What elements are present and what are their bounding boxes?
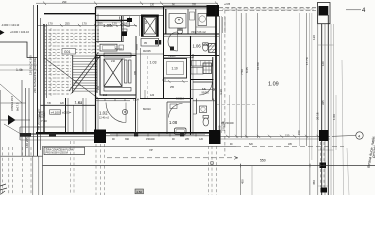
terrace hatch vertical dashes — [50, 29, 98, 95]
small text labels scattered — [103, 50, 155, 111]
shaft X diagonals — [104, 59, 122, 87]
line through triangle — [0, 119, 30, 121]
dashed verticals below wing — [70, 141, 72, 195]
svg-text:285: 285 — [185, 138, 190, 141]
small window x-box — [40, 112, 45, 117]
svg-text:170: 170 — [82, 21, 87, 25]
door arc corridor — [168, 32, 178, 51]
stairwell bottom landing — [104, 88, 131, 92]
wall y98 across lower band — [96, 98, 137, 100]
right strip column C5 — [319, 130, 328, 141]
stair cut diagonals — [69, 53, 98, 91]
site line y146 — [43, 145, 236, 147]
svg-text:G01: G01 — [64, 50, 71, 54]
stairwell outer walls — [100, 56, 136, 96]
svg-text:1.09: 1.09 — [268, 82, 279, 88]
svg-text:1.03: 1.03 — [150, 61, 157, 65]
elevation triangle left — [8, 115, 16, 125]
toilet room C — [177, 29, 182, 33]
svg-text:1.09: 1.09 — [332, 114, 336, 120]
right bathroom: washer — [200, 106, 207, 113]
right wall of lower block — [213, 99, 215, 134]
mid vertical wall x190 — [190, 36, 192, 135]
kitchen room 1.07 counter row — [192, 61, 213, 67]
svg-text:8x17.5: 8x17.5 — [16, 102, 20, 111]
scan edge left — [0, 90, 2, 195]
(chain line far left) — [28, 88, 30, 156]
survey circle below C4 — [210, 161, 214, 165]
kitchen lower rect row — [191, 68, 203, 75]
rotated text near left edge — [10, 95, 20, 111]
site line left y156 — [0, 155, 43, 157]
terrace hatch horizontal dashes — [44, 30, 99, 94]
svg-text:PRO NOSIVI ZIDOVI: PRO NOSIVI ZIDOVI — [46, 152, 69, 155]
top-right divider wall C — [195, 9, 197, 34]
svg-text:+0.000 = 104.16: +0.000 = 104.16 — [10, 30, 29, 34]
svg-text:150: 150 — [285, 134, 290, 138]
street line ticks — [240, 164, 242, 168]
wall chunk left wing 1 — [20, 133, 31, 137]
main top wall left segment — [44, 13, 96, 15]
svg-text:120: 120 — [199, 138, 204, 141]
bottom-left dashed verticals — [3, 147, 32, 195]
svg-text:160 205: 160 205 — [25, 137, 29, 148]
nightstand rect — [119, 45, 124, 50]
sink 1.08 — [170, 104, 177, 109]
main left wall of block — [95, 7, 97, 135]
svg-text:255: 255 — [65, 21, 70, 25]
terrace edge line 2 — [235, 8, 237, 138]
left dimension chain verticals — [22, 5, 47, 156]
right strip column C7 — [321, 188, 328, 193]
bottom wall of building (double line with openings) — [20, 133, 96, 135]
stairwell shaft box with X — [104, 59, 122, 87]
top dimension ticks — [43, 2, 218, 6]
window mullion ticks bottom wall — [117, 133, 196, 137]
svg-text:1.05: 1.05 — [103, 23, 112, 28]
wall chunk left wing 2 — [49, 133, 56, 137]
handwritten note right edge — [366, 118, 375, 168]
site vertical x42.5 — [42, 146, 44, 195]
shelf room B — [190, 12, 195, 20]
dashed dim line y104 — [217, 103, 256, 105]
svg-text:290: 290 — [62, 0, 67, 4]
axis 4 label top right — [346, 9, 361, 11]
svg-text:+2.85: +2.85 — [224, 3, 231, 6]
svg-text:VP: VP — [149, 148, 153, 152]
svg-text:29.15: 29.15 — [316, 112, 320, 120]
svg-text:1.08: 1.08 — [169, 120, 178, 125]
svg-text:1.02: 1.02 — [99, 111, 108, 116]
rotated texts right strip — [312, 35, 336, 185]
dim texts bottom chain — [230, 144, 293, 146]
right wall of block — [215, 5, 217, 133]
dashed verticals below column C4 — [209, 146, 217, 195]
left wing horizontal wall y127 — [20, 126, 66, 128]
svg-text:255: 255 — [170, 86, 175, 89]
svg-text:80/210: 80/210 — [115, 48, 123, 51]
svg-text:120: 120 — [192, 53, 195, 58]
svg-text:240: 240 — [97, 85, 100, 90]
strip tick y186 — [318, 185, 329, 187]
wall x163 top rooms — [163, 7, 165, 98]
vestibule door arc — [199, 82, 212, 95]
bathtub 1.08 — [175, 128, 187, 135]
svg-text:90/210: 90/210 — [202, 92, 210, 95]
svg-text:1.04: 1.04 — [133, 98, 139, 102]
vertical below street x240 — [240, 164, 242, 195]
top border dimension line — [36, 2, 218, 4]
left wing horizontal wall y105 — [41, 104, 96, 106]
dim numbers above y105 wall — [47, 103, 83, 105]
void room rect (light well) — [164, 59, 187, 79]
stairwell duct bars — [125, 60, 128, 83]
kitchen right wall — [212, 57, 214, 100]
terrace label box G01 — [62, 49, 76, 55]
top-right divider wall B — [187, 9, 189, 34]
door arc room 1.05 — [120, 17, 130, 27]
bottom dimension chain to right of plan — [220, 135, 330, 137]
svg-text:210: 210 — [103, 94, 108, 97]
left wing step outline — [0, 42, 38, 58]
svg-text:120: 120 — [321, 61, 325, 66]
small dim texts scattered 2 — [97, 21, 195, 90]
site text block box — [44, 147, 85, 154]
svg-text:80/210: 80/210 — [143, 108, 151, 111]
svg-text:ZID SUSJEDNE ZGRADE: ZID SUSJEDNE ZGRADE — [33, 58, 37, 93]
corridor wall left of elevator — [138, 16, 140, 36]
dashed verticals below column C3 — [96, 144, 105, 195]
elevator pit line — [141, 36, 159, 38]
kitchen hatched appliance — [203, 63, 212, 74]
elevator shaft walls — [141, 15, 144, 37]
sink counter room A — [169, 14, 186, 29]
rotated texts inside right wall strip — [321, 61, 325, 105]
zigzag fence marks on utility line — [222, 9, 314, 11]
room 1.05 top wall — [96, 19, 132, 21]
bottom-mid black column C4 — [209, 130, 221, 144]
street long line y165.5 — [43, 165, 375, 167]
svg-text:450: 450 — [312, 180, 316, 185]
right bathroom: toilet — [203, 118, 209, 126]
svg-text:150: 150 — [297, 130, 301, 135]
svg-text:4.50: 4.50 — [136, 190, 142, 194]
vline below street 2 — [251, 166, 253, 195]
svg-text:7.90: 7.90 — [41, 119, 47, 123]
bottom-left solid verticals — [32, 156, 34, 195]
horizontal wall y33 — [164, 33, 220, 35]
svg-text:120: 120 — [150, 4, 155, 7]
left dashed reference line — [50, 28, 52, 98]
left wing wall verticals — [65, 98, 67, 134]
kitchen bottom wall — [191, 79, 214, 81]
loggia band line — [96, 15, 164, 17]
assorted small dimension ticks center plan — [137, 44, 166, 98]
left wing corner vline — [19, 127, 21, 140]
corridor wall right of stairwell — [135, 36, 137, 98]
toilet fixture 1.06 — [203, 44, 208, 51]
svg-text:255: 255 — [192, 4, 197, 7]
left diagonal cut line — [0, 84, 22, 103]
elevator X — [144, 18, 155, 34]
duct dark rects below elevator — [155, 40, 158, 45]
corridor wall line y52.5 — [96, 53, 164, 55]
svg-text:12.46 m2: 12.46 m2 — [99, 117, 110, 120]
sink oval — [175, 17, 183, 23]
room 1.05 right wall — [121, 16, 123, 42]
wall chunk 1 bottom wall — [134, 132, 138, 136]
svg-text:+4.100: +4.100 — [51, 110, 61, 114]
top main dimension chain — [38, 24, 138, 26]
bed furniture below 1.05 — [100, 44, 117, 51]
dashed reference line corridor — [147, 56, 149, 98]
svg-text:90/210: 90/210 — [176, 97, 184, 101]
top-right room divider wall A — [165, 9, 167, 34]
dashed verticals below C5 — [320, 142, 322, 187]
stairwell upper landing bar — [104, 53, 131, 57]
grid bubble with leader — [332, 135, 356, 138]
long verticals center (terrace 1.09 edges) — [221, 16, 223, 133]
elevator cab — [144, 18, 155, 34]
right strip column C6 — [320, 163, 327, 169]
top tiny dimension texts — [150, 4, 197, 7]
upper wall inner line — [163, 4, 207, 6]
window sill lines in bottom wall — [110, 133, 205, 135]
svg-text:8.65: 8.65 — [245, 67, 249, 73]
svg-text:1.06: 1.06 — [193, 44, 202, 49]
top black column C1 — [207, 5, 220, 17]
room 1.08 walls — [166, 102, 168, 134]
elevation box +4.100 — [50, 110, 61, 114]
svg-text:75/205: 75/205 — [168, 55, 176, 58]
svg-text:450: 450 — [241, 179, 245, 184]
top right dashed utility line (double) — [219, 7, 318, 9]
big door arc room 1.02 — [106, 103, 126, 123]
strip crossing tick — [318, 44, 334, 46]
bottom-left black column C3 — [94, 130, 106, 144]
lower small rect room — [164, 81, 188, 83]
svg-text:1.10: 1.10 — [172, 67, 178, 71]
main top wall right segment — [96, 6, 207, 8]
svg-text:120: 120 — [312, 35, 316, 40]
left wing interior lines — [0, 64, 37, 66]
svg-text:345: 345 — [321, 100, 325, 105]
svg-text:-0.060 = 104.10: -0.060 = 104.10 — [1, 23, 20, 27]
svg-text:7.50: 7.50 — [240, 69, 244, 75]
svg-text:4.20: 4.20 — [219, 89, 223, 95]
svg-text:VISINA 29.5: VISINA 29.5 — [10, 95, 14, 111]
svg-text:1.4b: 1.4b — [16, 68, 23, 72]
door circle symbol — [122, 109, 127, 114]
right bathroom walls — [196, 99, 198, 115]
rotated dimension text left wall — [25, 55, 41, 148]
svg-text:17.70: 17.70 — [305, 57, 309, 65]
svg-text:10.80: 10.80 — [256, 62, 260, 70]
right wall strip verticals — [317, 15, 319, 195]
svg-text:170: 170 — [48, 21, 53, 25]
stair flight side walls — [72, 55, 74, 93]
svg-text:210: 210 — [111, 60, 116, 63]
svg-text:150/200: 150/200 — [146, 138, 155, 141]
room below elevator — [141, 39, 159, 47]
window mullion ticks top of 1.02 — [105, 99, 125, 102]
terrace diagonal cut — [45, 58, 100, 99]
top right black column C2 with outline — [318, 3, 331, 24]
svg-text:550: 550 — [260, 159, 266, 163]
svg-text:285: 285 — [134, 70, 137, 75]
svg-text:390: 390 — [125, 138, 130, 141]
shelf wall room C — [196, 26, 216, 28]
svg-text:90/205: 90/205 — [143, 50, 151, 53]
svg-text:±0.00=: ±0.00= — [62, 110, 71, 114]
dimension text row under bottom wall — [112, 138, 204, 141]
svg-text:S: S — [116, 24, 118, 28]
bottom-left corner marks — [0, 184, 7, 194]
terrace edge line — [299, 13, 301, 146]
svg-text:V04 7.06 m2: V04 7.06 m2 — [191, 30, 206, 34]
svg-text:120: 120 — [150, 94, 155, 97]
wing entry diagonal — [4, 124, 25, 137]
svg-text:AB 200/300 ZID: AB 200/300 ZID — [37, 108, 41, 130]
stair flight treads — [73, 56, 97, 91]
dashed arrow line y156.5 — [107, 157, 237, 159]
wall under 1.05 band — [96, 57, 101, 59]
room 1.05 bottom wall — [96, 41, 124, 43]
shower hatch square — [209, 44, 216, 53]
elevation triangle top-left — [0, 30, 5, 35]
hall shaft black box — [127, 18, 132, 22]
vestibule dim arrow line — [191, 89, 217, 91]
strip tick y150 — [318, 149, 334, 151]
door arc 1.08 — [169, 104, 183, 118]
bottom center label box — [135, 189, 144, 194]
rotated dimension texts in 1.09 area — [219, 57, 309, 95]
wall y55 across mid band — [96, 55, 137, 57]
left wing horizontal wall y103 left — [0, 102, 26, 104]
wall chunk 2 bottom wall — [180, 132, 184, 136]
washer room C — [198, 14, 207, 26]
vestibule wall y82 — [193, 81, 213, 83]
